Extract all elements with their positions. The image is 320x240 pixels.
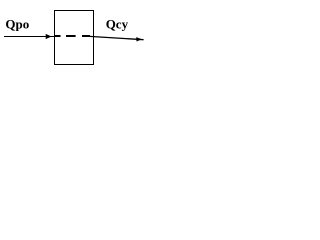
dashed flow line segment 1 — [54, 35, 61, 37]
svg-text:Qpo: Qpo — [5, 17, 29, 32]
dashed flow line segment 2 — [66, 35, 76, 37]
output arrowhead — [136, 37, 142, 41]
process block (box) — [55, 11, 94, 65]
dashed flow line segment 3 — [82, 35, 90, 37]
svg-text:Qcy: Qcy — [106, 17, 129, 32]
output wire — [90, 36, 144, 39]
input wire — [4, 36, 54, 38]
input arrowhead — [46, 34, 52, 39]
